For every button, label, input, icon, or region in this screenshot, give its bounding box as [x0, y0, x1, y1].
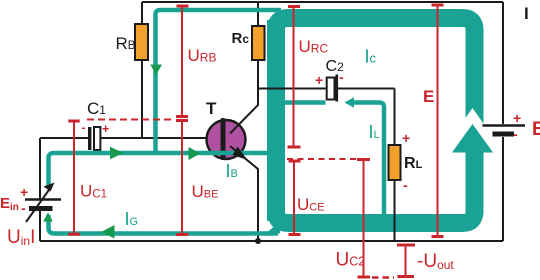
svg-text:I: I [524, 4, 529, 23]
bottom rail [40, 240, 503, 242]
wire RL branch [394, 89, 396, 242]
battery E plates [483, 124, 526, 126]
node dashed collector potential [287, 158, 356, 160]
voltage arrow URB [176, 6, 189, 117]
arrow up below Ein [43, 213, 53, 222]
svg-text:+: + [315, 72, 323, 88]
wire thin teal IB path top [156, 10, 282, 152]
svg-text:E: E [532, 119, 540, 140]
wire thin teal IG top [49, 153, 271, 186]
svg-text:-: - [513, 126, 518, 142]
transistor T emitter arrowhead [233, 147, 248, 161]
svg-text:-: - [21, 200, 26, 216]
voltage arrow UBE [176, 121, 189, 235]
resistor RL [389, 145, 401, 180]
svg-text:Rc: Rc [232, 30, 250, 47]
voltage arrow UC1 [68, 121, 80, 234]
arrow IB into base [189, 147, 201, 160]
voltage arrow UC2 [357, 160, 370, 278]
svg-text:E: E [423, 87, 434, 106]
top rail [142, 1, 503, 3]
node emitter junction [255, 238, 261, 244]
svg-text:+: + [102, 122, 109, 136]
capacitor C2 [327, 78, 335, 100]
svg-text:-: - [82, 123, 86, 135]
transistor T body [207, 120, 246, 159]
svg-text:+: + [20, 184, 28, 200]
wire emitter diagonal [230, 146, 258, 169]
svg-text:+: + [402, 130, 410, 146]
arrow IG right after C1 [110, 147, 124, 159]
node dashed base potential [87, 119, 175, 121]
svg-text:+: + [513, 110, 521, 126]
wire thin teal IG bottom [49, 215, 279, 234]
voltage arrow Uout [397, 245, 415, 277]
capacitor C1 [88, 127, 91, 150]
wire C2 row [258, 88, 395, 90]
resistor RC [252, 26, 265, 60]
white notch of big arrow [448, 108, 498, 144]
voltage arrow UCE [289, 161, 301, 235]
transistor T base bar [221, 118, 226, 160]
wire fillet IG into loop [266, 221, 280, 234]
node dashed bottom [372, 276, 394, 278]
source Ein symbol [25, 198, 61, 200]
svg-text:-: - [339, 69, 344, 85]
trunk fill [267, 20, 285, 221]
voltage arrow E [432, 5, 444, 237]
big arrowhead on right side of loop [452, 124, 493, 153]
wire thin teal IL loop [283, 103, 384, 217]
thick output current loop E/Ic [276, 18, 475, 223]
arrow IG bottom left [101, 225, 115, 239]
wire base [40, 137, 208, 139]
arrow IB down [150, 65, 162, 76]
wire RC collector [230, 2, 258, 134]
wire emitter vertical [256, 168, 258, 242]
svg-text:-: - [403, 177, 408, 193]
wire RB branch [141, 2, 143, 138]
arrow IL toward C2 [345, 97, 355, 107]
wire battery right [502, 2, 504, 241]
wire input left [39, 138, 41, 241]
voltage arrow URC [288, 7, 301, 148]
svg-text:T: T [206, 99, 217, 118]
resistor RB [135, 24, 148, 60]
